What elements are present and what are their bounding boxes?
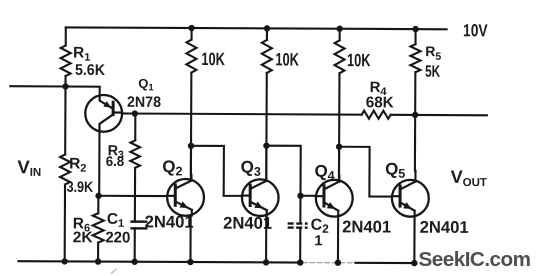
svg-text:2N401: 2N401 xyxy=(342,217,391,236)
resistor R5 xyxy=(410,29,441,115)
node ground C2 xyxy=(297,259,303,265)
node Q4 collector jog xyxy=(336,144,342,150)
node ground R2 xyxy=(61,258,67,264)
node Q1 collector junction xyxy=(95,193,101,199)
wire Q3 emitter to ground xyxy=(265,210,268,262)
wire node to Q1 emitter xyxy=(65,86,99,95)
resistor R3 xyxy=(105,113,140,221)
svg-text:2K: 2K xyxy=(73,229,94,246)
node ground Q3 xyxy=(263,259,269,265)
label 2N401 Q5 xyxy=(420,218,469,237)
svg-text:R1: R1 xyxy=(73,45,90,64)
transistor Q1 2N78 xyxy=(85,95,122,132)
node top rail 3 xyxy=(336,26,342,32)
svg-text:VOUT: VOUT xyxy=(451,167,487,189)
wire Q4 base line xyxy=(300,195,315,197)
wire jog Q2 collector to Q3 base xyxy=(191,146,242,196)
svg-text:C1: C1 xyxy=(107,211,124,230)
resistor R4 xyxy=(362,79,395,119)
svg-text:10K: 10K xyxy=(201,49,225,69)
label Q2 xyxy=(162,157,182,178)
node ground Q2 xyxy=(187,259,193,265)
wire jog Q3 collector to Q4 base column xyxy=(266,146,301,196)
wire Q5 collector up to R5 xyxy=(414,115,417,182)
svg-text:1: 1 xyxy=(314,233,322,249)
svg-text:10K: 10K xyxy=(275,49,299,69)
label VIN xyxy=(17,156,41,179)
node ground Q5 xyxy=(411,260,417,266)
wire ground rail right xyxy=(355,262,414,264)
svg-text:Q4: Q4 xyxy=(314,162,334,183)
svg-text:R2: R2 xyxy=(69,156,86,175)
label Q3 xyxy=(241,158,261,179)
svg-text:2N401: 2N401 xyxy=(223,214,272,233)
svg-text:Q5: Q5 xyxy=(385,160,405,181)
wire Q2 collector up xyxy=(190,146,193,181)
wire base rail of Q1 xyxy=(122,113,362,114)
label 2N401 Q3 xyxy=(223,214,272,233)
capacitor C1 xyxy=(105,211,146,262)
label 2N78 xyxy=(127,94,161,111)
svg-text:Q3: Q3 xyxy=(241,158,261,179)
svg-text:5K: 5K xyxy=(425,63,440,81)
wire C2 column upper xyxy=(299,196,301,223)
transistor Q4 2N401 xyxy=(316,180,353,217)
node top rail 2 xyxy=(264,25,270,31)
transistor Q2 2N401 xyxy=(167,179,204,216)
node divider junction xyxy=(62,83,68,89)
wire base rail right of R4 xyxy=(391,114,487,117)
wire jog Q4 collector to Q5 base xyxy=(339,147,392,197)
resistor 10K first xyxy=(186,28,225,180)
wire scan scratch artifact xyxy=(111,269,117,275)
label Q1 xyxy=(138,76,154,94)
wire Q5 emitter to ground xyxy=(413,211,415,263)
label Q4 xyxy=(314,162,334,183)
wire Q1 collector down xyxy=(98,132,100,196)
node ground Q4 xyxy=(335,260,341,266)
resistor R2 xyxy=(60,86,94,261)
svg-text:10V: 10V xyxy=(463,20,488,40)
wire VIN input stub xyxy=(10,85,65,87)
node R3 tap xyxy=(132,110,138,116)
label 10V xyxy=(463,20,488,40)
node Q2 collector jog xyxy=(188,143,194,149)
node R5 column junction xyxy=(412,112,418,118)
svg-text:VIN: VIN xyxy=(17,156,41,179)
svg-text:R5: R5 xyxy=(425,43,441,63)
node ground R6 xyxy=(95,258,101,264)
svg-text:3.9K: 3.9K xyxy=(67,179,94,196)
wire collector node to Q2 base xyxy=(99,195,168,197)
svg-text:SeekIC.com: SeekIC.com xyxy=(419,249,531,271)
svg-text:Q1: Q1 xyxy=(138,76,154,94)
svg-text:2N401: 2N401 xyxy=(145,212,194,231)
node C2 tap on Q4 base xyxy=(297,193,303,199)
resistor R1 xyxy=(61,27,106,86)
svg-text:Q2: Q2 xyxy=(162,157,182,178)
node top rail 1 xyxy=(188,25,194,31)
resistor R6 xyxy=(73,196,104,262)
wire Q2 emitter to ground xyxy=(190,210,191,262)
node Q3 collector jog xyxy=(263,142,269,148)
capacitor C2 xyxy=(288,217,330,250)
label 2N401 Q4 xyxy=(342,217,391,236)
wire Q4 emitter to ground xyxy=(337,211,339,263)
svg-text:10K: 10K xyxy=(347,50,371,70)
svg-text:6.8: 6.8 xyxy=(106,153,125,169)
svg-text:220: 220 xyxy=(105,229,130,246)
label Q5 xyxy=(385,160,405,181)
wire ground rail xyxy=(18,261,302,262)
wire top supply rail xyxy=(66,27,447,29)
svg-text:2N78: 2N78 xyxy=(127,94,161,111)
label VOUT xyxy=(451,167,487,189)
label 2N401 Q2 xyxy=(145,212,194,231)
svg-text:5.6K: 5.6K xyxy=(75,62,106,79)
wire C2 column lower xyxy=(299,228,301,263)
node top rail 4 xyxy=(412,26,418,32)
wire Q3 collector up xyxy=(265,146,267,181)
wire Q4 collector up xyxy=(338,147,341,182)
svg-text:2N401: 2N401 xyxy=(420,218,469,237)
resistor 10K third xyxy=(334,29,371,182)
transistor Q5 2N401 xyxy=(392,180,429,217)
svg-text:68K: 68K xyxy=(366,94,395,111)
transistor Q3 2N401 xyxy=(242,179,279,216)
node ground C1 xyxy=(131,259,137,265)
resistor 10K second xyxy=(261,28,299,180)
wire ground rail faded scan segment xyxy=(302,262,357,264)
